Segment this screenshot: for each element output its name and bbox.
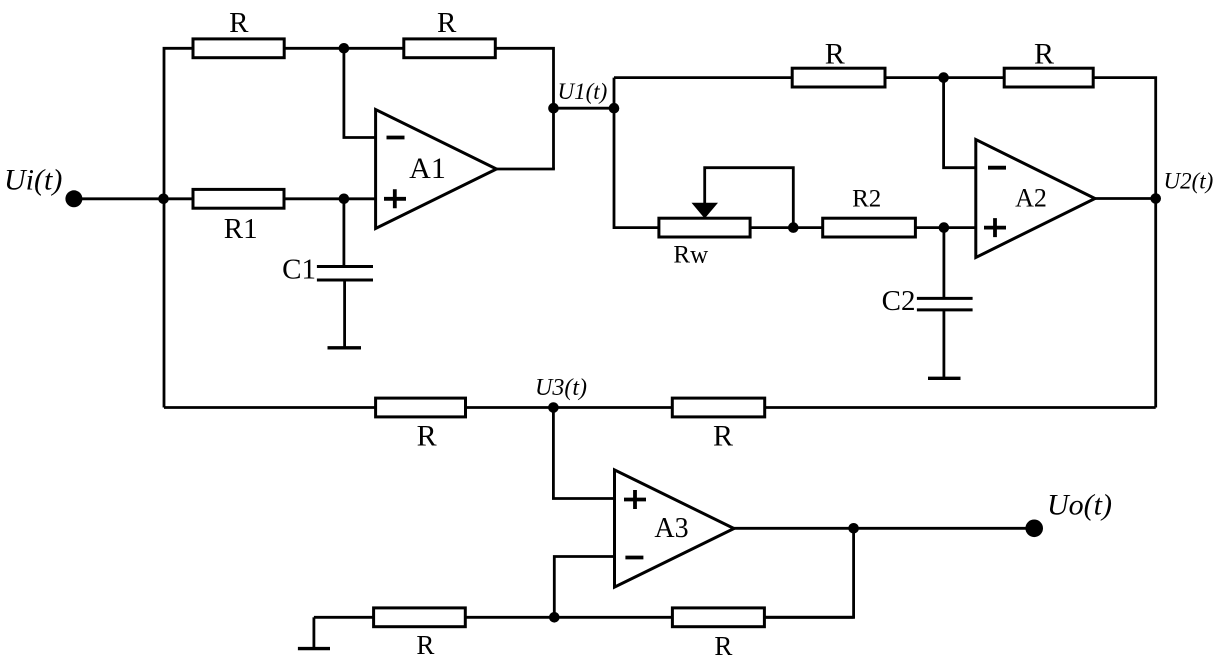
node input junction bbox=[158, 194, 169, 205]
node A3 inverting junction bbox=[549, 612, 560, 623]
node A2 plus junction bbox=[939, 222, 950, 233]
wire bottom ground row bbox=[314, 616, 854, 619]
node U3 bbox=[548, 402, 559, 413]
resistor R (top row 1) bbox=[193, 39, 284, 58]
resistor R (stage2 top b) bbox=[1004, 68, 1093, 87]
resistor R (U3 rail right) bbox=[672, 398, 764, 417]
node U1 right bbox=[609, 103, 620, 114]
wire A1 output bbox=[497, 168, 554, 171]
op-amp A3 plus sign bbox=[624, 490, 646, 509]
wire C2 branch bbox=[943, 228, 946, 298]
wire A2 inverting branch bbox=[944, 78, 976, 168]
capacitor C1 plates bbox=[317, 267, 373, 281]
resistor R (feedback row) bbox=[672, 608, 764, 627]
wire Ui input to A1 + bbox=[74, 197, 376, 200]
wire Rw wiper loop bbox=[705, 168, 794, 228]
resistor R (top row 2) bbox=[404, 39, 496, 58]
resistor R (stage2 top a) bbox=[792, 68, 885, 87]
svg-text:R: R bbox=[713, 420, 733, 453]
wire A3 non-inverting branch bbox=[553, 408, 614, 499]
svg-text:R: R bbox=[417, 420, 437, 453]
node A1 top feedback junction bbox=[339, 43, 350, 54]
node A1 plus junction bbox=[339, 194, 350, 205]
terminal dot Uo bbox=[1025, 520, 1043, 538]
wire bottom rail U3 row bbox=[164, 406, 1156, 409]
op-amp A1 bbox=[376, 110, 497, 229]
resistor R (ground row) bbox=[374, 608, 466, 627]
resistor R1 bbox=[193, 189, 284, 208]
wire C1 lower lead bbox=[343, 281, 346, 348]
svg-text:Uo(t): Uo(t) bbox=[1047, 489, 1112, 522]
svg-text:U1(t): U1(t) bbox=[558, 79, 608, 104]
svg-text:Ui(t): Ui(t) bbox=[4, 164, 62, 197]
svg-text:R2: R2 bbox=[852, 186, 881, 213]
op-amp A1 plus sign bbox=[384, 189, 406, 208]
op-amp A3 minus sign bbox=[625, 556, 643, 560]
potentiometer Rw body bbox=[659, 218, 750, 237]
ground below C2 bbox=[928, 377, 961, 380]
op-amp A3 bbox=[615, 470, 735, 587]
wire A2 output bbox=[1095, 197, 1156, 200]
svg-text:Rw: Rw bbox=[673, 242, 708, 269]
op-amp A2 plus sign bbox=[984, 218, 1006, 237]
wire Rw to A2 + bbox=[750, 226, 976, 229]
op-amp A2 minus sign bbox=[988, 166, 1006, 170]
wire C1 branch bbox=[342, 199, 345, 266]
resistor R (U3 rail left) bbox=[376, 398, 466, 417]
node U2 bbox=[1150, 193, 1161, 204]
node U1 left bbox=[548, 103, 559, 114]
node A3 output junction bbox=[848, 523, 859, 534]
wire A3 feedback bbox=[765, 528, 854, 617]
svg-text:C2: C2 bbox=[882, 285, 916, 317]
svg-text:C1: C1 bbox=[282, 254, 316, 286]
svg-text:A1: A1 bbox=[409, 152, 446, 185]
svg-text:R1: R1 bbox=[224, 213, 258, 245]
ground bottom-left bar bbox=[298, 647, 330, 650]
node A2 top feedback junction bbox=[938, 72, 949, 83]
wire A3 output bbox=[734, 527, 1034, 530]
ground below C1 bbox=[328, 346, 362, 349]
svg-text:R: R bbox=[437, 7, 457, 39]
ground bottom-left lead bbox=[312, 617, 315, 648]
svg-text:U3(t): U3(t) bbox=[535, 375, 587, 401]
svg-text:U2(t): U2(t) bbox=[1164, 168, 1214, 193]
wire A1 inverting branch bbox=[344, 48, 376, 137]
op-amp A1 minus sign bbox=[387, 136, 405, 140]
wire top feedback loop A1 (R,R row, left vertical) bbox=[164, 48, 554, 407]
svg-text:A3: A3 bbox=[654, 513, 688, 544]
terminal dot Ui bbox=[65, 190, 82, 207]
svg-text:A2: A2 bbox=[1015, 184, 1047, 213]
resistor R2 bbox=[823, 218, 916, 237]
svg-text:R: R bbox=[714, 631, 732, 661]
wire A3 inverting branch bbox=[554, 557, 614, 618]
svg-text:R: R bbox=[825, 38, 845, 71]
op-amp A2 bbox=[976, 140, 1095, 258]
wire stage2 top row (R,R and right vertical) bbox=[614, 78, 1156, 408]
svg-text:R: R bbox=[416, 630, 434, 660]
svg-text:R: R bbox=[1034, 38, 1054, 71]
wire U1 down-branch to Rw bbox=[614, 78, 659, 228]
wiper arrowhead of Rw bbox=[692, 203, 719, 219]
wire C2 lower lead bbox=[943, 311, 946, 379]
svg-text:R: R bbox=[229, 7, 249, 39]
wire U1 node link bbox=[554, 107, 615, 110]
capacitor C2 plates bbox=[917, 298, 973, 310]
node Rw wiper junction bbox=[788, 222, 799, 233]
